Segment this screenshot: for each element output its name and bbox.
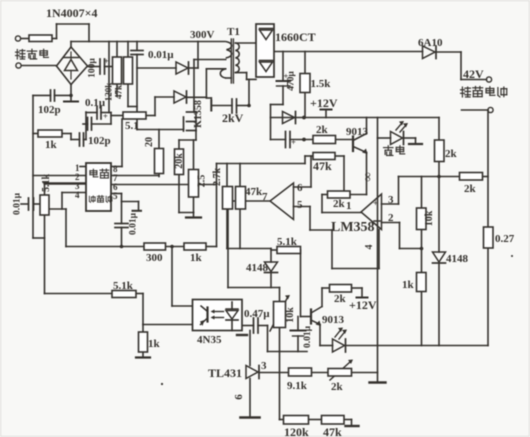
svg-text:20k: 20k (174, 153, 185, 169)
svg-text:42V: 42V (463, 67, 484, 81)
svg-text:300V: 300V (190, 29, 215, 41)
svg-text:+: + (291, 137, 296, 147)
svg-text:4: 4 (75, 190, 80, 200)
svg-text:9013: 9013 (322, 314, 345, 326)
svg-text:0.01µ: 0.01µ (303, 325, 313, 348)
svg-text:9013: 9013 (346, 126, 369, 138)
svg-text:4N35: 4N35 (197, 334, 222, 346)
svg-text:+: + (373, 198, 378, 208)
svg-text:5.1: 5.1 (125, 120, 139, 132)
svg-text:1660CT: 1660CT (275, 30, 316, 44)
svg-text:1: 1 (346, 200, 352, 212)
svg-text:0.01µ: 0.01µ (13, 192, 23, 215)
svg-text:120k: 120k (284, 425, 309, 437)
svg-text:4148: 4148 (446, 253, 469, 265)
svg-text:LM358: LM358 (331, 220, 375, 235)
svg-text:0.01µ: 0.01µ (148, 49, 174, 61)
svg-text:20: 20 (144, 137, 155, 147)
svg-text:470µ: 470µ (287, 71, 297, 91)
svg-text:4148: 4148 (246, 262, 269, 274)
svg-text:47k: 47k (323, 425, 342, 437)
svg-text:47k: 47k (245, 186, 263, 198)
svg-text:2k: 2k (331, 381, 344, 393)
svg-text:3: 3 (388, 194, 394, 206)
svg-text:K1358: K1358 (193, 100, 204, 128)
svg-text:4: 4 (364, 245, 375, 250)
svg-text:1N4007×4: 1N4007×4 (46, 6, 98, 20)
svg-text:7: 7 (262, 191, 268, 203)
svg-text:2kV: 2kV (222, 111, 244, 125)
svg-text:+12V: +12V (310, 96, 338, 110)
svg-text:5.1k: 5.1k (277, 236, 298, 248)
svg-text:1k: 1k (148, 338, 161, 350)
svg-text:5: 5 (113, 191, 118, 201)
svg-text:2k: 2k (316, 124, 329, 136)
svg-text:6: 6 (297, 182, 303, 194)
svg-text:102p: 102p (38, 104, 61, 116)
svg-text:5.1k: 5.1k (41, 174, 52, 193)
svg-text:6: 6 (233, 394, 245, 400)
svg-text:120k: 120k (104, 83, 114, 102)
svg-text:10k: 10k (285, 307, 296, 323)
svg-text:1.5k: 1.5k (311, 78, 332, 90)
svg-text:2: 2 (388, 212, 394, 224)
svg-text:5: 5 (297, 199, 303, 211)
svg-text:2k: 2k (445, 148, 458, 160)
svg-text:102p: 102p (88, 135, 111, 147)
svg-text:1k: 1k (45, 139, 58, 151)
svg-text:6A10: 6A10 (418, 37, 443, 49)
svg-text:2k: 2k (333, 198, 346, 210)
svg-text:47k: 47k (313, 159, 332, 173)
svg-text:TL431: TL431 (208, 366, 242, 380)
svg-text:100µ: 100µ (88, 58, 98, 78)
svg-text:0.27: 0.27 (495, 233, 515, 245)
svg-text:47k: 47k (114, 85, 124, 99)
svg-text:1k: 1k (190, 252, 203, 264)
svg-text:+12V: +12V (349, 298, 377, 312)
svg-text:300: 300 (146, 252, 163, 264)
svg-text:1k: 1k (402, 279, 415, 291)
svg-text:2.5: 2.5 (197, 175, 208, 188)
svg-text:2k: 2k (334, 293, 347, 305)
svg-text:+: + (103, 111, 108, 121)
svg-text:+: + (104, 57, 109, 66)
svg-text:5.1k: 5.1k (113, 280, 134, 292)
svg-text:9.1k: 9.1k (287, 380, 308, 392)
svg-text:3: 3 (261, 360, 267, 372)
svg-text:∞: ∞ (360, 172, 375, 181)
svg-text:10k: 10k (424, 210, 435, 226)
svg-text:2k: 2k (464, 183, 477, 195)
svg-text:2.7k: 2.7k (212, 168, 223, 187)
svg-text:T1: T1 (227, 26, 240, 38)
svg-text:0.01µ: 0.01µ (129, 212, 139, 235)
svg-text:0.47µ: 0.47µ (244, 308, 270, 320)
